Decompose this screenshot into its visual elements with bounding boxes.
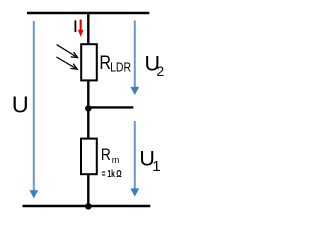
wire R_LDR to middle junction <box>87 80 89 108</box>
resistor R_LDR <box>81 44 97 80</box>
svg-text:m: m <box>112 155 120 165</box>
wire top stub to R_LDR <box>87 13 89 45</box>
wire middle tap <box>88 106 133 108</box>
voltage arrow U2 (blue) <box>130 21 139 96</box>
resistor R_m <box>81 139 97 175</box>
node middle junction <box>85 105 91 111</box>
label U2 <box>145 51 165 79</box>
LDR light arrow 2 <box>56 57 77 69</box>
voltage arrow U (blue, left) <box>29 21 38 198</box>
label I (drawn as bar) <box>75 20 77 32</box>
svg-text:1: 1 <box>152 158 160 175</box>
wire top rail <box>27 12 149 14</box>
label R_m <box>101 146 119 165</box>
wire R_m to bottom rail <box>87 174 89 206</box>
svg-text:2: 2 <box>156 63 164 79</box>
LDR light arrow 1 <box>57 45 78 58</box>
current arrow I (red) <box>78 20 84 37</box>
svg-text:R: R <box>101 146 111 164</box>
label R_LDR <box>99 52 131 75</box>
svg-text:LDR: LDR <box>110 61 131 75</box>
svg-text:= 1k Ω: = 1k Ω <box>102 169 122 180</box>
voltage arrow U1 (blue) <box>130 121 139 197</box>
wire bottom rail <box>23 205 151 207</box>
wire junction to R_m <box>87 108 89 139</box>
svg-text:U: U <box>12 92 29 118</box>
node bottom junction <box>85 203 92 210</box>
label U1 <box>139 147 160 176</box>
